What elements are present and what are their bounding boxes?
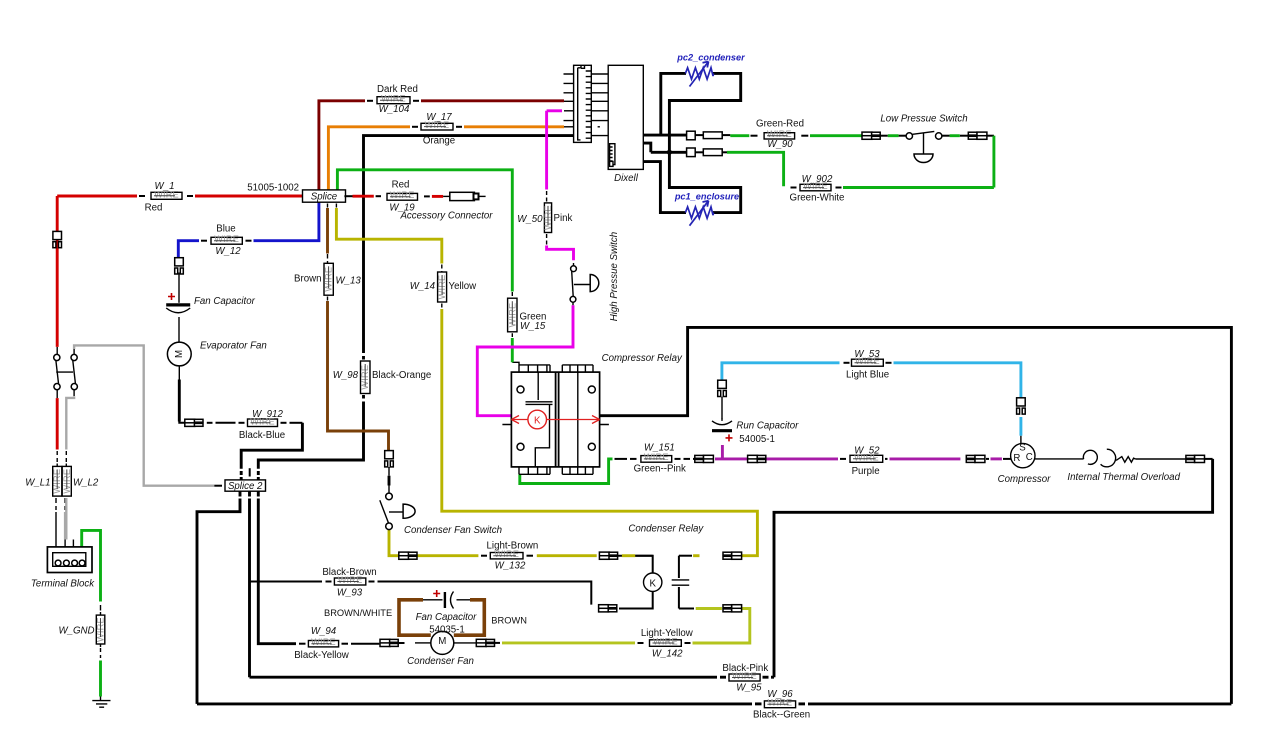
svg-text:WIRE: WIRE <box>390 190 415 200</box>
svg-text:Black-Blue: Black-Blue <box>239 430 285 441</box>
svg-text:WIRE: WIRE <box>311 637 336 647</box>
svg-text:W_912: W_912 <box>252 409 283 420</box>
svg-text:Terminal Block: Terminal Block <box>31 579 95 590</box>
svg-text:Orange: Orange <box>423 136 455 147</box>
svg-text:W_98: W_98 <box>333 370 359 381</box>
svg-text:pc2_condenser: pc2_condenser <box>676 53 745 63</box>
svg-text:Black-Yellow: Black-Yellow <box>294 650 350 661</box>
svg-text:Internal Thermal Overload: Internal Thermal Overload <box>1067 472 1180 483</box>
svg-text:Low Pressue Switch: Low Pressue Switch <box>880 114 967 125</box>
svg-text:K: K <box>649 578 656 589</box>
svg-text:Light-Brown: Light-Brown <box>487 541 539 552</box>
svg-text:Compressor Relay: Compressor Relay <box>602 353 683 364</box>
svg-text:54035-1: 54035-1 <box>429 625 465 636</box>
svg-text:M: M <box>438 636 446 647</box>
svg-text:W_96: W_96 <box>767 689 793 700</box>
svg-text:Light Blue: Light Blue <box>846 370 889 381</box>
svg-text:W_52: W_52 <box>854 445 880 456</box>
svg-text:Black-Orange: Black-Orange <box>372 370 431 381</box>
svg-text:W_L2: W_L2 <box>73 478 99 489</box>
svg-text:W_L1: W_L1 <box>25 478 50 489</box>
svg-text:Black--Green: Black--Green <box>753 710 810 721</box>
svg-text:W_1: W_1 <box>155 181 175 192</box>
svg-text:W_132: W_132 <box>495 560 526 571</box>
svg-text:Yellow: Yellow <box>449 281 478 292</box>
svg-text:W_104: W_104 <box>379 104 410 115</box>
svg-text:W_12: W_12 <box>215 246 241 257</box>
svg-text:Green-White: Green-White <box>790 193 845 204</box>
svg-text:C: C <box>1026 452 1033 463</box>
svg-text:W_93: W_93 <box>337 588 363 599</box>
svg-text:Dark Red: Dark Red <box>377 84 418 95</box>
svg-text:Splice 2: Splice 2 <box>228 481 263 492</box>
svg-text:Dixell: Dixell <box>614 173 639 184</box>
svg-text:Blue: Blue <box>216 224 235 235</box>
svg-text:W_94: W_94 <box>311 626 337 637</box>
svg-text:W_GND: W_GND <box>58 626 94 637</box>
svg-text:W_95: W_95 <box>736 683 762 694</box>
svg-text:K: K <box>534 416 541 427</box>
svg-text:BROWN: BROWN <box>491 616 527 626</box>
svg-text:Green-Red: Green-Red <box>756 119 804 130</box>
svg-text:High Pressue Switch: High Pressue Switch <box>609 232 620 321</box>
svg-text:Condenser Relay: Condenser Relay <box>628 524 704 535</box>
svg-text:BROWN/WHITE: BROWN/WHITE <box>324 608 392 618</box>
svg-text:Compressor: Compressor <box>998 474 1052 485</box>
svg-text:Condenser Fan: Condenser Fan <box>407 656 474 667</box>
svg-text:Purple: Purple <box>852 466 880 477</box>
svg-text:Black-Brown: Black-Brown <box>322 567 376 578</box>
svg-text:Red: Red <box>392 180 410 191</box>
svg-text:Condenser Fan Switch: Condenser Fan Switch <box>404 525 502 536</box>
svg-text:Splice: Splice <box>311 191 338 202</box>
svg-text:Green--Pink: Green--Pink <box>634 464 686 475</box>
svg-text:Fan Capacitor: Fan Capacitor <box>416 612 478 623</box>
svg-text:W_13: W_13 <box>336 276 362 287</box>
svg-text:Accessory Connector: Accessory Connector <box>399 211 493 222</box>
svg-text:W_902: W_902 <box>802 174 833 185</box>
svg-text:WIRE: WIRE <box>644 452 669 462</box>
svg-text:Red: Red <box>145 203 163 214</box>
svg-text:W_15: W_15 <box>520 321 546 332</box>
svg-text:51005-1002: 51005-1002 <box>247 183 299 194</box>
svg-text:pc1_enclosure: pc1_enclosure <box>674 192 739 202</box>
svg-text:Run Capacitor: Run Capacitor <box>736 421 799 432</box>
svg-text:W_50: W_50 <box>517 214 543 225</box>
svg-text:Brown: Brown <box>294 274 321 285</box>
svg-text:WIRE: WIRE <box>214 234 239 244</box>
svg-text:WIRE: WIRE <box>381 94 406 104</box>
svg-text:W_53: W_53 <box>854 349 880 360</box>
svg-text:W_142: W_142 <box>652 649 683 660</box>
svg-text:W_90: W_90 <box>767 139 793 150</box>
svg-text:Fan Capacitor: Fan Capacitor <box>194 296 256 307</box>
svg-text:W_14: W_14 <box>410 281 436 292</box>
svg-text:Light-Yellow: Light-Yellow <box>641 628 694 639</box>
svg-text:Evaporator Fan: Evaporator Fan <box>200 341 267 352</box>
svg-text:WIRE: WIRE <box>767 129 792 139</box>
svg-text:M: M <box>174 350 185 358</box>
svg-text:W_151: W_151 <box>644 442 675 453</box>
svg-text:W_17: W_17 <box>426 112 452 123</box>
svg-text:Black-Pink: Black-Pink <box>722 663 768 674</box>
svg-text:R: R <box>1013 453 1020 464</box>
svg-text:Pink: Pink <box>554 213 573 224</box>
svg-text:54005-1: 54005-1 <box>739 434 775 445</box>
